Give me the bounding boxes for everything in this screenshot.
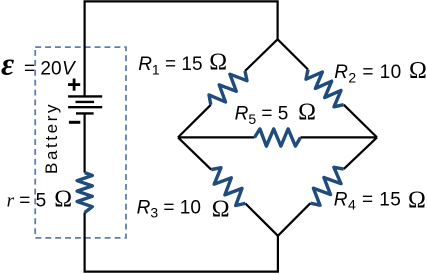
svg-text:R3 = 10: R3 = 10 [137,197,201,220]
resistor R5 zigzag [255,129,301,146]
svg-text:Ω: Ω [54,187,72,213]
wire: battery bottom to resistor r [83,113,85,172]
wire: top loop (battery top, top rail, drop to node a) [85,1,278,96]
resistor r zigzag [77,173,92,213]
wire: branch R3 (node c to node b) [178,137,278,235]
svg-text:r = 5: r = 5 [7,191,47,212]
svg-text:Ω: Ω [408,187,426,213]
resistor R3 zigzag [211,168,245,206]
wire: below r, bottom rail, rise to node b [85,213,278,272]
battery U1 plates [68,96,102,113]
resistor R2 zigzag [306,70,344,107]
svg-text:R4 = 15: R4 = 15 [334,189,401,212]
svg-text:Ω: Ω [298,99,316,125]
svg-text:R1 = 15: R1 = 15 [138,54,202,77]
wire: branch R1 (node a to node c) [178,39,278,137]
svg-text:= 20: = 20 [24,59,62,80]
svg-text:Ω: Ω [212,197,230,223]
resistor R1 zigzag [209,71,247,105]
svg-text:Battery: Battery [42,102,61,174]
resistor R4 zigzag [310,167,343,205]
svg-text:Ω: Ω [409,58,427,84]
wire: branch R4 (node d to node b) [278,137,377,235]
battery minus terminal sign [69,121,80,124]
wire: branch R2 (node a to node d) [278,39,377,137]
wire: branch R5 (node c to node d) [178,136,377,138]
svg-text:ε: ε [1,46,14,82]
svg-text:Ω: Ω [209,49,227,75]
battery enclosure dashed box [35,47,126,238]
svg-text:R2 = 10: R2 = 10 [334,62,401,85]
svg-text:R5 = 5: R5 = 5 [235,104,289,127]
battery plus terminal sign [68,79,80,91]
